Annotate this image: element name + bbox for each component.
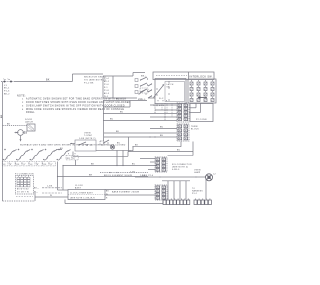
selector switch step [133,73,145,77]
svg-text:BK: BK [91,163,95,165]
svg-text:WIRE CODE COLORS ARE SHOWN AS: WIRE CODE COLORS ARE SHOWN AS VIEWED FRO… [26,108,124,111]
wire row1b [150,104,177,106]
wire row2b [155,109,177,111]
wire y133 to TB [104,131,177,133]
svg-text:BU: BU [120,111,124,113]
svg-text:BAKE ELEMENT 2600W: BAKE ELEMENT 2600W [112,191,139,194]
svg-text:LATCH: LATCH [167,83,174,86]
svg-text:BU: BU [132,163,136,165]
wire rail y165-BK [63,160,157,166]
lock motor M1 [15,130,27,142]
svg-text:P2 CONN: P2 CONN [196,119,207,121]
connector P2 [177,103,189,122]
wire left drop [103,101,105,142]
label bake element [112,191,139,194]
svg-text:BK—: BK— [34,187,39,189]
selector switch SW1 body [103,76,137,98]
connector P2 label [196,119,207,121]
connector P1 label [15,174,34,176]
svg-text:CLOCK+TIMER ASSY: CLOCK+TIMER ASSY [70,191,94,194]
P1 wire right2 [42,192,62,194]
svg-text:NOTE:: NOTE: [17,94,26,97]
label broil [104,175,153,177]
harness label [192,188,203,195]
svg-text:8″: 8″ [24,164,26,166]
latch box bottom labels [153,105,164,107]
svg-text:BU-3: BU-3 [104,93,109,95]
wire bottom left [3,193,36,202]
oven lamp label [194,170,201,175]
latch terminal drops [157,104,172,118]
wire rail1 step [133,142,181,151]
latch switch box [154,79,187,104]
wire BK row1 [103,98,147,100]
P1 wire right [42,185,62,188]
wire bottom rail2 [35,195,68,197]
svg-text:GY OR Y W: GY OR Y W [17,192,29,194]
connector G1 [155,157,167,172]
wires into G1 [140,159,155,170]
surface units title [20,144,126,147]
svg-text:(SEE NOTE 1) BK-W-R: (SEE NOTE 1) BK-W-R [70,197,95,199]
broil row [100,172,148,173]
svg-text:BK: BK [60,148,64,150]
svg-text:BK-2: BK-2 [4,94,10,96]
svg-text:8″: 8″ [51,164,53,166]
interlock switch contacts [190,80,214,101]
interlock label box [153,72,214,80]
svg-text:1-BK (NOTE 2): 1-BK (NOTE 2) [79,138,96,140]
wire L1 to selector switch [14,81,72,83]
svg-text:T-STAT: T-STAT [84,134,93,137]
door switch cluster [100,140,121,149]
svg-text:R-1: R-1 [104,87,108,89]
harness wire [130,172,190,181]
terminal block TB [177,124,189,141]
clock wire labels [106,191,110,200]
svg-text:BU: BU [160,135,164,137]
svg-text:P1-2 BK: P1-2 BK [84,82,94,84]
svg-text:LATCH: LATCH [25,120,33,123]
interlock box outline [188,79,216,103]
connector H2 [194,199,211,205]
harness drops [168,178,206,199]
svg-text:L2: L2 [213,173,216,175]
thermal fuse box [27,124,35,131]
svg-text:P1-3: P1-3 [4,90,10,92]
svg-text:BU: BU [160,126,164,128]
svg-text:+10: +10 [138,98,142,100]
wire row4 [103,118,177,120]
svg-text:4-BK-6: 4-BK-6 [172,169,180,171]
svg-text:P3-2: P3-2 [192,193,197,195]
wire rail1 right end [168,142,194,156]
wires to G2 [105,190,155,196]
svg-text:N-C: N-C [159,98,164,100]
wire mid drops [155,103,165,121]
svg-text:P1-4: P1-4 [104,78,109,80]
left rail label BK [1,114,3,118]
wire rail y176 [57,162,148,178]
svg-text:BROIL ELEMENT 3000W: BROIL ELEMENT 3000W [104,175,132,177]
label L1 text block [4,85,10,96]
svg-text:W: W [50,195,52,197]
wire label BK [46,79,50,81]
P1 inner labels [17,189,29,194]
surface unit switch S5 [57,149,71,160]
svg-text:BU: BU [110,118,114,120]
wire drop x128 [128,137,130,152]
svg-text:RR: RR [67,158,71,160]
svg-text:BK: BK [1,114,3,118]
svg-text:W—: W— [34,191,38,193]
svg-text:SURFACE UNITS AND SWITCHES SHO: SURFACE UNITS AND SWITCHES SHOWN IN THE … [20,144,126,147]
svg-text:T/S (SEE NOTE 2): T/S (SEE NOTE 2) [84,79,106,81]
svg-text:8K-1: 8K-1 [4,88,10,90]
surface unit switch S3 [29,149,43,166]
clock label above [75,185,84,189]
svg-text:BK: BK [116,131,120,133]
selector switch contacts [135,77,148,94]
surface unit switch S4 [43,149,57,166]
svg-text:BR: BR [89,174,93,176]
svg-text:1-BK: 1-BK [47,185,53,187]
wire to oven lamp [135,175,206,178]
svg-text:BK: BK [116,98,120,100]
svg-text:BK-2: BK-2 [104,81,109,83]
svg-text:ASSY: ASSY [75,186,82,189]
svg-text:DOOR SWITCHES SHOWN WITH OVEN: DOOR SWITCHES SHOWN WITH OVEN DOOR CLOSE… [26,101,131,104]
rail y165 drops [116,150,123,166]
wire BU row3 [103,111,177,113]
svg-text:PANEL: PANEL [26,111,35,114]
connector G2 [155,185,167,200]
surface unit 5 terminals [66,153,78,160]
selector mid cluster [138,88,155,101]
P1 bottom dashes [16,195,33,197]
label selector switch feed [84,76,106,84]
svg-text:INTERLOCK SW.: INTERLOCK SW. [190,76,213,79]
wire step up [72,74,103,82]
surface unit switch S2 [16,149,30,166]
clock assembly box [68,190,105,200]
thermostat label [79,133,96,140]
svg-text:BK: BK [7,123,11,125]
connector P2 box [190,104,213,122]
note block [17,94,131,114]
wire rail2 left [73,152,128,157]
svg-text:P1-8: P1-8 [104,90,109,92]
surface unit switch S1 [2,149,16,166]
wire row2 [103,101,130,108]
wire rail1 left [96,150,133,152]
svg-text:P1-6: P1-6 [104,84,109,86]
label L2 right of lamp [213,173,216,175]
surface unit feed [56,148,64,150]
wire row3b [150,116,177,118]
wire label BK top [141,76,147,78]
terminal block label [191,126,199,131]
wire y137 to TB [104,135,177,138]
svg-text:BK: BK [135,145,139,147]
oven thermostat box [70,140,96,151]
svg-text:P1 CONNECTOR: P1 CONNECTOR [15,174,34,176]
svg-text:BLOCK: BLOCK [191,129,199,131]
svg-text:SW: SW [167,87,170,89]
svg-text:BK: BK [106,191,110,193]
svg-text:5-BK: 5-BK [130,172,136,174]
svg-text:BK W R BU: BK W R BU [17,189,29,191]
latch switch contacts left [148,83,152,98]
P1 wire labels [34,187,39,193]
svg-text:BK: BK [46,79,50,81]
svg-text:W-5: W-5 [104,96,108,98]
wire rail2 step [128,152,193,157]
lock motor label [25,119,33,124]
clock left bracket [58,165,69,190]
wire left rail [2,82,4,202]
svg-text:8″: 8″ [10,164,12,166]
wire BU to TB [150,126,177,128]
oven lamp L1b [206,174,213,181]
svg-text:8″: 8″ [73,158,75,160]
wires interlock to P2 [189,103,201,113]
connector G1 label [172,164,192,171]
wire bottom rail [65,200,163,204]
wire to lock motor [3,123,28,125]
rail1 dots [129,145,138,152]
terminal L1 (power supply) [1,79,14,83]
connector P1 [16,176,34,195]
svg-text:LAMP: LAMP [194,171,201,174]
svg-text:2-BK: 2-BK [140,175,146,177]
svg-text:W: W [106,194,108,196]
connector H1 [163,199,190,205]
svg-text:8″: 8″ [37,164,39,166]
svg-text:L1: L1 [4,85,8,87]
